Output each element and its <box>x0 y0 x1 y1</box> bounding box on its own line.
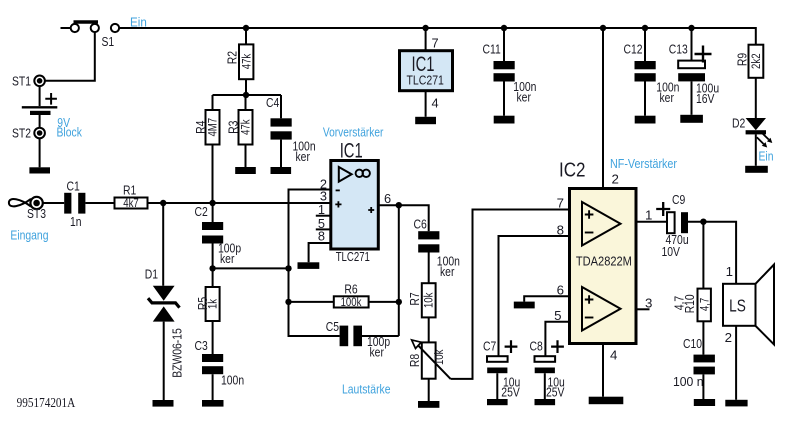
svg-text:IC2: IC2 <box>559 159 586 182</box>
capacitor C8 (electrolytic) <box>530 338 565 399</box>
svg-text:4: 4 <box>432 95 439 110</box>
wire top supply rail <box>119 28 756 45</box>
IC1 supply block <box>400 51 453 91</box>
svg-text:C5: C5 <box>326 319 339 334</box>
amplifier IC2 TDA2822M <box>570 189 637 344</box>
svg-text:ST2: ST2 <box>12 126 31 141</box>
ground (C8) <box>535 399 556 405</box>
resistor R10 <box>671 289 711 322</box>
wire rail to C13 <box>691 28 693 61</box>
svg-text:4: 4 <box>610 348 617 363</box>
svg-text:47k: 47k <box>239 119 253 135</box>
node junction input/C2/R4 <box>209 200 215 206</box>
svg-text:10k: 10k <box>422 292 436 308</box>
svg-text:ST3: ST3 <box>27 206 46 221</box>
ground (C7) <box>487 399 508 405</box>
svg-text:1: 1 <box>645 208 652 223</box>
pin 5 stub IC1 <box>316 228 331 230</box>
svg-text:R9: R9 <box>735 53 750 66</box>
svg-text:C6: C6 <box>414 216 427 231</box>
svg-text:ker: ker <box>517 89 532 104</box>
wire rail to C11 <box>503 28 505 61</box>
node junction rail/C12 <box>642 25 648 31</box>
svg-text:100 n: 100 n <box>673 374 704 389</box>
ground (C11) <box>494 116 515 124</box>
wire to D1 <box>162 203 164 286</box>
capacitor C12 <box>624 42 680 106</box>
wire IC1 pin6 to C6 <box>378 205 428 231</box>
ground (C3) <box>202 400 224 407</box>
svg-text:TLC271: TLC271 <box>407 73 444 88</box>
wire C5 right <box>362 335 399 337</box>
wire C7 to ground <box>496 373 498 399</box>
speaker LS <box>723 265 774 345</box>
ground (R8) <box>418 401 439 408</box>
node junction R6/output column <box>396 299 402 305</box>
wire branch to R3 <box>245 95 247 110</box>
svg-text:5: 5 <box>554 308 561 323</box>
wire R9 to D2 <box>755 78 757 118</box>
wire R3 to ground <box>245 145 247 168</box>
wire C3 to ground <box>212 374 214 400</box>
node junction rail/IC1 supply <box>422 25 428 31</box>
svg-text:995174201A: 995174201A <box>17 395 76 410</box>
wire battery to ST2 <box>39 115 41 128</box>
diode D1 <box>145 267 185 378</box>
svg-text:Ein: Ein <box>759 148 774 163</box>
wire R4 to input line <box>212 145 214 204</box>
wire rail to R2 <box>245 28 247 44</box>
ground (IC1 pin8) <box>298 262 320 269</box>
wire junction to feedback column <box>213 267 289 269</box>
resistor R3 <box>226 110 253 145</box>
wire ST3 to C1 <box>43 202 64 204</box>
wire rail to IC2 pin2 <box>602 28 604 189</box>
wire switch to ST1 <box>45 32 95 81</box>
wire IC2 pin4 to ground <box>602 344 604 397</box>
svg-text:4M7: 4M7 <box>206 118 220 137</box>
resistor R7 <box>407 283 436 317</box>
svg-text:3: 3 <box>320 188 327 203</box>
capacitor C5 <box>326 319 390 360</box>
capacitor C13 (electrolytic) <box>669 42 719 107</box>
svg-text:4,7: 4,7 <box>697 298 711 312</box>
wire C8 to ground <box>544 373 546 399</box>
capacitor C11 <box>483 42 537 105</box>
wire LS to ground <box>735 326 737 400</box>
svg-text:D2: D2 <box>732 115 745 130</box>
ground (R3) <box>235 167 256 174</box>
wire C10 to ground <box>702 374 704 399</box>
svg-text:C13: C13 <box>669 42 688 57</box>
node junction rail/R2 <box>243 25 249 31</box>
svg-text:BZW06-15: BZW06-15 <box>169 328 184 378</box>
potentiometer R8 <box>407 340 451 379</box>
svg-text:Eingang: Eingang <box>10 228 48 243</box>
wire C11 to ground <box>503 82 505 116</box>
resistor R5 <box>195 287 220 321</box>
svg-text:R8: R8 <box>407 354 422 367</box>
svg-text:7: 7 <box>432 36 439 51</box>
ground (C4) <box>271 167 292 174</box>
svg-text:ker: ker <box>220 251 235 266</box>
capacitor C10 <box>673 336 715 389</box>
resistor R1 <box>115 183 148 210</box>
svg-text:TDA2822M: TDA2822M <box>576 254 632 269</box>
svg-text:3: 3 <box>645 295 652 310</box>
ground (C12) <box>635 116 656 124</box>
wire R1 to IC1 pin3 (input line) <box>148 202 331 204</box>
ground (C13) <box>680 115 703 123</box>
capacitor C4 <box>266 95 316 164</box>
ground (LS) <box>725 400 747 407</box>
wire IC1 pin2 feedback <box>289 190 340 337</box>
svg-text:100n: 100n <box>221 372 244 387</box>
pin 1 stub IC1 <box>316 215 331 217</box>
terminal ST3 <box>9 197 46 221</box>
wire IC1 pin8 to ground <box>309 243 331 262</box>
svg-text:TLC271: TLC271 <box>336 250 370 264</box>
capacitor C2 <box>195 204 242 266</box>
wire R8 wiper to IC2 pin7 <box>451 210 570 379</box>
svg-text:25V: 25V <box>501 385 520 400</box>
wire ST1 to battery <box>39 86 41 106</box>
svg-text:ker: ker <box>660 90 675 105</box>
svg-text:S1: S1 <box>102 34 115 49</box>
svg-text:C3: C3 <box>195 338 208 353</box>
wire branch to C4 <box>280 95 282 118</box>
svg-text:2k2: 2k2 <box>749 53 763 69</box>
resistor R9 <box>735 45 764 78</box>
wire C2 bottom to junction <box>212 244 214 269</box>
svg-text:1: 1 <box>726 264 733 279</box>
wire C12 to ground <box>644 82 646 116</box>
svg-text:C8: C8 <box>530 338 543 353</box>
wire junction to R5 <box>212 268 214 287</box>
terminal ST2 <box>12 126 45 141</box>
node junction feedback/C2 line <box>285 265 291 271</box>
svg-text:C4: C4 <box>266 95 279 110</box>
wire C1 to R1 <box>85 202 114 204</box>
capacitor C3 <box>195 338 245 388</box>
node junction feedback/R6 <box>285 299 291 305</box>
ground (IC1 supply) <box>415 117 436 124</box>
wire ST2 to ground <box>39 138 41 167</box>
wire IC2 pin6 to ground <box>524 296 569 301</box>
node junction C9/R10 <box>700 219 706 225</box>
resistor R2 <box>225 44 254 79</box>
svg-text:C12: C12 <box>624 42 643 57</box>
svg-text:R10: R10 <box>682 294 697 313</box>
wire IC2 pin1 to C9 <box>636 221 667 223</box>
wire rail to C12 <box>644 28 646 61</box>
svg-text:47k: 47k <box>239 53 253 69</box>
svg-text:D1: D1 <box>145 267 158 282</box>
svg-text:6: 6 <box>557 282 564 297</box>
node junction rail/IC2 pin2 <box>600 25 606 31</box>
svg-text:C10: C10 <box>683 336 702 351</box>
switch S1 <box>61 22 120 49</box>
svg-text:Vorverstärker: Vorverstärker <box>323 125 384 140</box>
svg-text:100k: 100k <box>341 295 362 309</box>
wire IC2 pin5 to C8 <box>545 322 569 356</box>
ground (battery) <box>29 167 50 173</box>
resistor R4 <box>193 110 220 145</box>
svg-text:ST1: ST1 <box>12 74 31 89</box>
wire C13 to ground <box>691 81 693 114</box>
svg-text:2: 2 <box>612 172 619 187</box>
battery BT (9V Block) <box>22 93 82 140</box>
ground (IC2 pin6) <box>514 302 535 309</box>
svg-text:R7: R7 <box>407 292 422 305</box>
ground (D2) <box>745 166 768 173</box>
terminal ST1 <box>12 74 45 89</box>
LED D2 <box>732 115 774 163</box>
svg-text:LS: LS <box>729 296 746 316</box>
svg-text:ker: ker <box>296 149 311 164</box>
ground (D1) <box>153 400 174 407</box>
wire C9 to LS <box>688 222 736 284</box>
svg-text:Lautstärke: Lautstärke <box>342 382 391 397</box>
node junction R2 branch <box>243 92 249 98</box>
svg-text:R2: R2 <box>225 51 240 64</box>
wire R10 top <box>702 222 704 289</box>
wire R10 to C10 <box>702 321 704 354</box>
capacitor C9 (electrolytic) <box>656 192 688 259</box>
resistor R6 <box>334 282 369 309</box>
ground (C10) <box>694 399 715 406</box>
capacitor C7 (electrolytic) <box>483 338 520 399</box>
ground (IC2 pin4) <box>589 397 624 405</box>
pin 3 stub IC2 <box>636 308 650 310</box>
node junction R1/D1 <box>160 200 166 206</box>
node junction rail/C13 <box>688 25 694 31</box>
svg-text:7: 7 <box>557 196 564 211</box>
svg-text:8: 8 <box>318 229 325 244</box>
node junction pin6/output <box>396 202 402 208</box>
svg-text:NF-Verstärker: NF-Verstärker <box>610 156 677 171</box>
svg-text:4k7: 4k7 <box>123 196 139 210</box>
wire C2 top <box>212 203 214 222</box>
wire D1 to ground <box>163 322 165 400</box>
wire R2 to branch <box>245 79 247 95</box>
svg-text:C9: C9 <box>672 192 685 207</box>
node junction C2/R5 <box>209 265 215 271</box>
svg-text:2: 2 <box>725 330 732 345</box>
wire output column <box>398 205 400 336</box>
wire R8 to ground <box>428 379 430 401</box>
svg-text:6: 6 <box>384 191 391 206</box>
svg-text:C7: C7 <box>483 338 496 353</box>
svg-text:25V: 25V <box>546 385 565 400</box>
wire IC1 supply pin4 to ground <box>425 91 427 117</box>
svg-text:ker: ker <box>370 345 385 360</box>
wire D2 to ground <box>755 134 757 165</box>
svg-text:1n: 1n <box>70 214 82 229</box>
capacitor C6 <box>414 216 460 279</box>
op-amp IC1 <box>331 161 379 265</box>
node junction rail/C11 <box>501 25 507 31</box>
svg-text:Block: Block <box>57 125 83 140</box>
wire IC2 pin8 to C7 <box>499 236 570 356</box>
wire branch R4/R3/C4 <box>213 94 282 96</box>
svg-text:C2: C2 <box>195 204 208 219</box>
svg-text:1k: 1k <box>206 298 220 309</box>
wire rail to IC1 supply pin7 <box>425 28 427 51</box>
svg-text:ker: ker <box>440 264 455 279</box>
svg-text:16V: 16V <box>696 91 715 106</box>
capacitor C1 <box>64 179 85 230</box>
wire R5 to C3 <box>212 321 214 354</box>
wire C6 to R7 <box>428 253 430 284</box>
wire R6 right <box>369 301 399 303</box>
svg-text:C1: C1 <box>67 179 80 194</box>
wire C4 to ground <box>280 140 282 167</box>
wire branch to R4 <box>212 95 214 110</box>
svg-text:10V: 10V <box>662 244 681 259</box>
svg-text:C11: C11 <box>483 42 501 57</box>
wire R7 to R8 <box>428 317 430 342</box>
wire R6 left <box>289 301 334 303</box>
